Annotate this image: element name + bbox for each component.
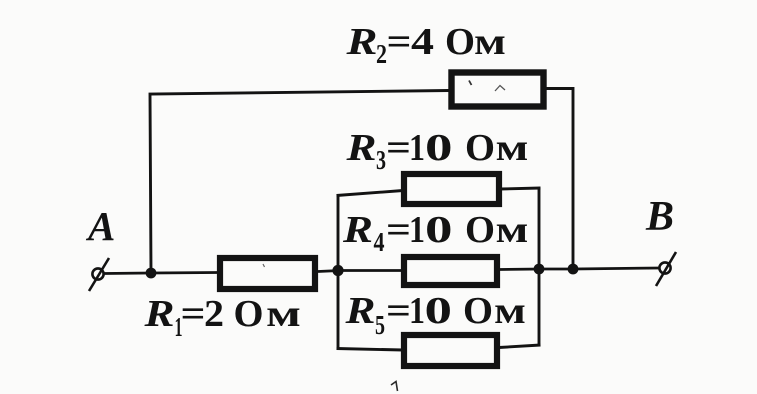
resistor R1 (220, 258, 315, 289)
svg-text:A: A (85, 203, 115, 249)
speck inside R1 box (scan artifact) (263, 264, 265, 267)
svg-text:м: м (496, 209, 529, 251)
wire middle junction to R4 (338, 269, 402, 272)
svg-text:О: О (465, 209, 495, 251)
wire right rail junction to R2 junction (539, 268, 575, 271)
svg-text:5: 5 (375, 310, 385, 340)
wire R2 to down-drop (545, 89, 573, 270)
wire R2 branch: up from node, across top (150, 91, 449, 274)
svg-text:R: R (345, 21, 377, 63)
svg-text:м: м (474, 21, 506, 63)
value label R2 = 4 Ом (345, 21, 506, 69)
value label R3 = 10 Ом (345, 127, 528, 175)
svg-text:R: R (143, 293, 174, 335)
wire junction to R1 (151, 271, 218, 274)
wire R5 to right rail (499, 345, 541, 348)
wire left rail to R5 (337, 349, 404, 351)
svg-text:R: R (344, 290, 375, 332)
svg-text:О: О (234, 293, 264, 335)
value label R4 = 10 Ом (342, 209, 529, 257)
junction right rail node (534, 264, 545, 275)
svg-text:О: О (465, 127, 495, 169)
svg-text:=: = (386, 209, 411, 251)
terminal A symbol (89, 258, 109, 291)
value label R1 = 2 Ом (143, 293, 301, 342)
wire A to junction (104, 272, 151, 275)
svg-text:R: R (345, 127, 376, 169)
svg-text:=: = (387, 21, 412, 63)
right parallel rail (538, 188, 541, 346)
svg-text:м: м (496, 127, 529, 169)
svg-text:=: = (386, 290, 411, 332)
svg-text:2: 2 (376, 39, 387, 69)
svg-text:=: = (181, 293, 206, 335)
svg-text:B: B (645, 194, 674, 240)
svg-text:0: 0 (425, 209, 453, 251)
wire R1 to middle junction (318, 271, 340, 272)
svg-text:м: м (494, 290, 526, 332)
junction middle node (right of R1) (332, 265, 343, 276)
wire left rail to R3 (337, 191, 404, 196)
svg-text:0: 0 (425, 290, 453, 332)
wire R3 to right rail (500, 188, 541, 189)
resistor R5 (404, 335, 497, 366)
svg-text:2: 2 (204, 293, 224, 335)
check mark inside R2 box (scan artifact) (495, 86, 505, 92)
terminal B symbol (656, 252, 676, 286)
resistor R4 (404, 257, 497, 285)
stray pen tick below R5 (scan artifact) (391, 382, 398, 392)
svg-text:м: м (266, 293, 301, 335)
junction R2 drop node (568, 264, 579, 275)
svg-text:1: 1 (409, 209, 425, 251)
svg-text:О: О (463, 290, 493, 332)
svg-text:R: R (342, 209, 373, 251)
svg-text:0: 0 (425, 127, 453, 169)
svg-text:4: 4 (411, 21, 434, 63)
wire to terminal B (573, 268, 660, 269)
value label R5 = 10 Ом (344, 290, 526, 340)
resistor R2 (452, 73, 544, 107)
svg-text:1: 1 (409, 127, 425, 169)
svg-text:1: 1 (409, 290, 425, 332)
resistor R3 (404, 174, 499, 204)
svg-text:4: 4 (374, 227, 385, 257)
svg-text:3: 3 (376, 145, 386, 175)
left parallel rail (337, 196, 340, 349)
speck inside R2 box (scan artifact) (469, 81, 472, 86)
svg-text:О: О (445, 21, 475, 63)
junction left node (146, 268, 157, 279)
wire R4 to right rail junction (499, 268, 541, 271)
svg-text:=: = (386, 127, 411, 169)
